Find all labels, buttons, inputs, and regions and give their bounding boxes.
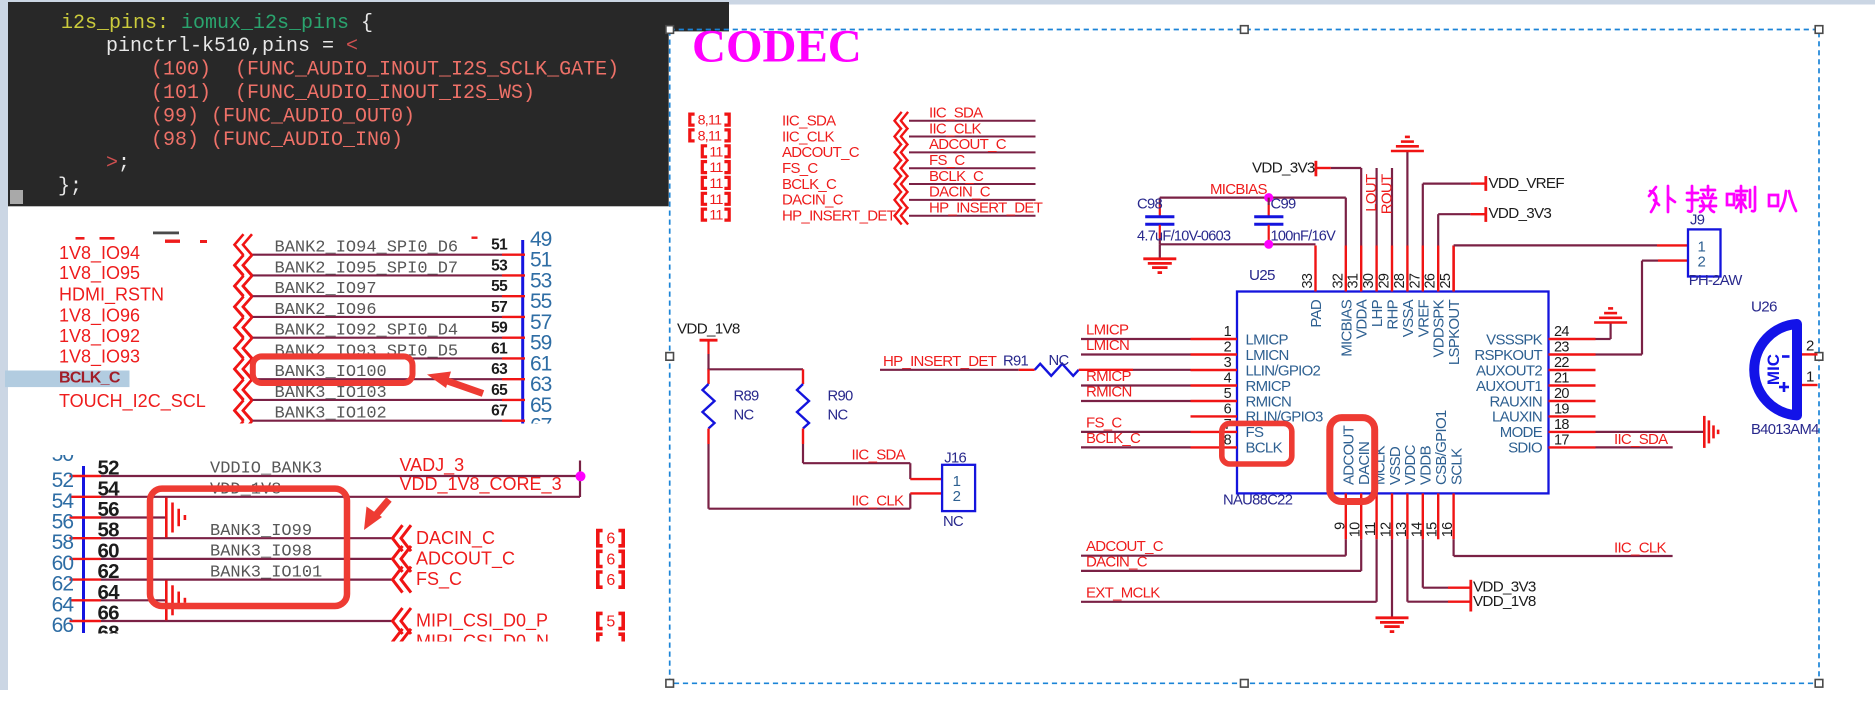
connector body edge (blue pin line): [521, 240, 524, 424]
svg-text:1V8_IO93: 1V8_IO93: [59, 347, 140, 368]
svg-text:29: 29: [1377, 273, 1393, 288]
svg-text:(99) (FUNC_AUDIO_OUT0): (99) (FUNC_AUDIO_OUT0): [151, 105, 415, 128]
highlight box around ADCOUT/DACIN pins: [1330, 418, 1375, 502]
svg-text:C99: C99: [1271, 197, 1297, 213]
svg-text:J16: J16: [944, 451, 966, 467]
svg-text:24: 24: [1554, 324, 1569, 340]
wire-entry chevron row 53: [235, 255, 253, 296]
wire pin 23 RSPKOUT to J9 pin 2: [1596, 261, 1689, 355]
wire pin 28 VSSA to ground: [1406, 151, 1408, 246]
ground (sideways) pin 56: [166, 498, 185, 538]
wire-entry chevron row 67: [235, 400, 253, 441]
net VADJ_3 junction wire: [579, 461, 581, 498]
pin 10: [1360, 493, 1362, 539]
wire-entry chevron row 51: [235, 234, 253, 275]
pin 31: [1360, 246, 1362, 292]
svg-text:FS_C: FS_C: [782, 160, 818, 177]
svg-text:MIPI_CSI_D0_P: MIPI_CSI_D0_P: [416, 611, 548, 632]
svg-text:ROUT: ROUT: [1379, 174, 1396, 214]
wire-entry chevron row 63: [235, 359, 253, 400]
svg-text:BANK3_IO98: BANK3_IO98: [210, 543, 312, 562]
sheet reference [6]: [598, 531, 623, 548]
wire IIC_CLK to J16: [709, 444, 943, 509]
svg-text:14: 14: [1409, 522, 1425, 537]
off-page chevron MIPI_CSI_D0_P: [393, 608, 412, 634]
svg-text:(100) (FUNC_AUDIO_INOUT_I2S_S: (100) (FUNC_AUDIO_INOUT_I2S_SCLK_GATE): [151, 59, 619, 82]
partial row MIPI_CSI_D0_N: [393, 629, 624, 655]
svg-text:58: 58: [98, 519, 120, 542]
svg-text:1V8_IO96: 1V8_IO96: [59, 305, 140, 326]
wire ADCOUT_C: [909, 151, 1036, 153]
svg-text:LMICN: LMICN: [1086, 337, 1129, 354]
svg-text:BANK2_IO95_SPI0_D7: BANK2_IO95_SPI0_D7: [275, 259, 459, 278]
junction dot VADJ_3: [576, 471, 586, 481]
selection handle: [1815, 353, 1823, 361]
svg-text:17: 17: [1554, 432, 1569, 448]
wire C98 bottom to ground: [1159, 244, 1161, 258]
svg-text:BANK3_IO100: BANK3_IO100: [275, 363, 387, 382]
svg-text:R89: R89: [734, 389, 760, 405]
svg-text:BCLK_C: BCLK_C: [59, 369, 121, 386]
wire cap bottoms to pin 33 PAD: [1160, 243, 1316, 245]
svg-text:R91: R91: [1003, 353, 1029, 369]
wire pin 60: [70, 558, 395, 560]
svg-text:62: 62: [52, 573, 74, 596]
junction dot MICBIAS at C99: [1264, 193, 1273, 202]
off-page chevron DACIN_C: [895, 191, 909, 209]
connector body edge (blue pin line) lower: [82, 466, 85, 633]
svg-text:53: 53: [530, 269, 552, 292]
wire pin 10 DACIN to DACIN_C: [1081, 539, 1361, 571]
wire pin 54: [70, 496, 581, 498]
svg-text:>: >: [106, 152, 118, 175]
svg-text:33: 33: [1300, 273, 1316, 288]
wire-entry chevron row 57: [235, 296, 253, 337]
svg-text:NAU88C22: NAU88C22: [1223, 493, 1293, 509]
wire pin 66: [70, 620, 395, 622]
svg-text:DACIN_C: DACIN_C: [1086, 553, 1148, 570]
svg-text:6: 6: [606, 531, 615, 548]
svg-text:IIC_SDA: IIC_SDA: [852, 446, 906, 463]
ground (below C98): [1143, 259, 1176, 273]
pin 2 of U26: [1802, 353, 1818, 355]
svg-text:RMICP: RMICP: [1086, 368, 1132, 385]
svg-text:10: 10: [1348, 522, 1364, 537]
off-page chevron ADCOUT_C: [393, 546, 412, 572]
svg-text:U25: U25: [1249, 267, 1275, 284]
svg-text:11: 11: [709, 208, 723, 224]
svg-text:28: 28: [1392, 273, 1408, 288]
svg-text:2: 2: [1224, 340, 1232, 356]
sheet reference [6]: [598, 572, 623, 589]
svg-text:32: 32: [1330, 273, 1346, 288]
svg-text:ADCOUT_C: ADCOUT_C: [929, 136, 1007, 153]
pin 2: [1191, 353, 1238, 355]
svg-text:PAD: PAD: [1308, 299, 1325, 327]
svg-text:58: 58: [52, 531, 74, 554]
svg-text:31: 31: [1346, 273, 1362, 288]
wire pin 9 ADCOUT to ADCOUT_C: [1081, 539, 1346, 555]
svg-text:BANK3_IO99: BANK3_IO99: [210, 522, 312, 541]
svg-text:VDD_1V8: VDD_1V8: [677, 321, 740, 338]
wire BANK pin 53: [252, 274, 525, 276]
annotation arrow to BANK3 group: [364, 500, 389, 531]
power symbol VDD_1V8: [677, 321, 740, 355]
svg-text:PH-2AW: PH-2AW: [1689, 273, 1743, 289]
svg-text:59: 59: [530, 332, 552, 355]
svg-text:VDD_1V8_CORE_3: VDD_1V8_CORE_3: [400, 474, 562, 495]
svg-text:62: 62: [98, 560, 120, 583]
svg-text:63: 63: [530, 373, 552, 396]
svg-text:<: <: [346, 35, 358, 58]
svg-text:61: 61: [491, 340, 508, 357]
sheet reference [11] row DACIN_C: [702, 192, 729, 208]
svg-text:LMICN: LMICN: [1246, 347, 1289, 364]
white crop patch below pin 68: [10, 634, 390, 644]
wire pin 27 VREF to VDD_VREF: [1423, 184, 1486, 246]
wire to pin 4: [1081, 384, 1191, 386]
svg-text:VDD_3V3: VDD_3V3: [1489, 205, 1552, 222]
svg-text:27: 27: [1407, 273, 1423, 288]
sheet reference [6]: [598, 551, 623, 568]
svg-text:21: 21: [1554, 371, 1569, 387]
cut-off label remnants top: [76, 232, 478, 244]
svg-text:60: 60: [98, 539, 120, 562]
ground (top, VSSA): [1391, 137, 1424, 151]
code editor dark panel: [8, 2, 729, 206]
pin 21: [1549, 384, 1596, 386]
pin 9: [1345, 493, 1347, 539]
svg-text:IIC_CLK: IIC_CLK: [782, 128, 834, 145]
wire-entry chevron row 59: [235, 317, 253, 358]
wire-entry chevron row 65: [235, 379, 253, 420]
off-page chevron DACIN_C: [393, 525, 412, 551]
off-page chevron BCLK_C: [895, 175, 909, 193]
svg-text:54: 54: [98, 477, 121, 500]
pin 17: [1549, 446, 1596, 448]
svg-text:4: 4: [1224, 371, 1232, 387]
pin 1 of U26: [1802, 384, 1818, 386]
pin 3: [1191, 369, 1238, 371]
svg-text:2: 2: [953, 488, 961, 505]
svg-text:HP_INSERT_DET: HP_INSERT_DET: [929, 200, 1043, 217]
pin 14: [1422, 493, 1424, 539]
svg-text:SDIO: SDIO: [1508, 440, 1542, 457]
svg-text:16: 16: [1440, 522, 1456, 537]
sheet reference [11] row BCLK_C: [702, 176, 729, 192]
selection handle: [1241, 680, 1249, 688]
pin 8: [1191, 446, 1238, 448]
wire pin 18 MODE to ground: [1596, 431, 1705, 433]
sheet reference [11] row ADCOUT_C: [702, 144, 729, 160]
svg-text:BCLK_C: BCLK_C: [782, 176, 837, 193]
svg-text:54: 54: [52, 490, 75, 513]
pin 13: [1406, 493, 1408, 539]
svg-text:55: 55: [491, 278, 508, 295]
off-page chevron IIC_CLK: [895, 128, 909, 146]
svg-text:AUXOUT1: AUXOUT1: [1476, 378, 1542, 395]
pin 4: [1191, 384, 1238, 386]
svg-text:IIC_SDA: IIC_SDA: [1614, 431, 1668, 448]
pin 12: [1391, 493, 1393, 539]
svg-text:22: 22: [1554, 355, 1569, 371]
resistor R89 (NC): [703, 369, 760, 444]
off-page chevron IIC_SDA: [895, 112, 909, 130]
svg-text:11: 11: [709, 176, 723, 192]
svg-text:51: 51: [491, 237, 508, 254]
svg-text:1: 1: [1224, 324, 1232, 340]
svg-text:15: 15: [1425, 522, 1441, 537]
svg-text:8: 8: [1224, 432, 1232, 448]
svg-text:iomux_i2s_pins: iomux_i2s_pins: [181, 12, 349, 35]
svg-text:11: 11: [709, 144, 723, 160]
pin 16: [1452, 493, 1454, 539]
wire pin 62: [70, 578, 395, 580]
pin 30: [1375, 246, 1377, 292]
svg-text:1: 1: [1806, 368, 1814, 385]
pin 32: [1345, 246, 1347, 292]
selection handle: [1815, 26, 1823, 34]
svg-text:64: 64: [52, 593, 75, 616]
off-page chevron HP_INSERT_DET: [895, 207, 909, 225]
svg-text:;: ;: [118, 152, 130, 175]
svg-text:BCLK_C: BCLK_C: [1086, 430, 1141, 447]
wire BANK pin 59: [252, 337, 525, 339]
wire LOUT (pin 30 LHP): [1375, 168, 1377, 246]
svg-text:FS: FS: [1246, 424, 1264, 441]
svg-text:30: 30: [1361, 273, 1377, 288]
wire IIC_SDA: [909, 120, 1036, 122]
power symbol VDD_3V3 (right): [1486, 205, 1552, 222]
ground (bottom, VSSD): [1376, 618, 1409, 632]
svg-text:C98: C98: [1137, 197, 1163, 213]
svg-text:MICBIAS: MICBIAS: [1210, 181, 1267, 198]
svg-text:HDMI_RSTN: HDMI_RSTN: [59, 285, 164, 306]
wire pin 26 VDDSPK to VDD_3V3: [1438, 214, 1486, 245]
svg-text:1V8_IO95: 1V8_IO95: [59, 263, 140, 284]
wire to pin 5: [1081, 400, 1191, 402]
annotation arrow to BANK3_IO100: [427, 372, 483, 394]
svg-text:NC: NC: [1049, 353, 1070, 369]
svg-text:RMICN: RMICN: [1086, 384, 1132, 401]
svg-text:ADCOUT_C: ADCOUT_C: [1086, 538, 1164, 555]
svg-text:IIC_SDA: IIC_SDA: [782, 113, 836, 130]
svg-text:IIC_CLK: IIC_CLK: [852, 492, 904, 509]
wire pin 14 VDDB to VDD_3V3: [1423, 539, 1471, 587]
pin 33: [1314, 246, 1316, 292]
svg-text:49: 49: [530, 228, 552, 251]
svg-text:BANK2_IO96: BANK2_IO96: [275, 301, 377, 320]
wire pin 64: [70, 599, 167, 601]
svg-text:B4013AM4: B4013AM4: [1751, 422, 1819, 438]
sheet reference [8,11] row IIC_CLK: [690, 129, 729, 145]
wire to pin 8: [1081, 446, 1191, 448]
svg-text:BANK2_IO94_SPI0_D6: BANK2_IO94_SPI0_D6: [275, 239, 459, 258]
svg-text:DACIN_C: DACIN_C: [929, 184, 991, 201]
svg-text:9: 9: [1332, 522, 1348, 530]
wire to pin 7: [1081, 431, 1191, 433]
svg-text:RMICP: RMICP: [1246, 378, 1292, 395]
svg-text:TOUCH_I2C_SCL: TOUCH_I2C_SCL: [59, 391, 206, 412]
pin 23: [1549, 353, 1596, 355]
wire HP_INSERT_DET: [909, 215, 1036, 217]
svg-text:12: 12: [1379, 522, 1395, 537]
pin 15: [1437, 493, 1439, 539]
selection handle: [666, 26, 674, 34]
pin 1: [1191, 338, 1238, 340]
pin 25: [1452, 246, 1454, 292]
wire VDD_1V8 to resistors: [707, 354, 803, 369]
svg-text:2: 2: [1806, 338, 1814, 355]
svg-text:52: 52: [98, 457, 120, 480]
ground (sideways, MODE): [1704, 416, 1718, 448]
wire R91 to pin 3: [1079, 369, 1191, 371]
selection handle: [1241, 26, 1249, 34]
svg-text:NC: NC: [734, 408, 755, 424]
wire VDD_3V3 to pin 31 VDDA: [1331, 168, 1361, 246]
svg-text:53: 53: [491, 257, 508, 274]
wire to pin 2: [1081, 353, 1191, 355]
wire BANK pin 61: [252, 357, 525, 359]
wire ROUT (pin 29 RHP): [1391, 168, 1393, 246]
pin 29: [1391, 246, 1393, 292]
svg-text:MODE: MODE: [1500, 424, 1543, 441]
svg-text:R90: R90: [828, 389, 854, 405]
wire pin 16 SCLK to IIC_CLK: [1454, 539, 1673, 556]
pin 19: [1549, 415, 1596, 417]
svg-text:LMICP: LMICP: [1246, 331, 1289, 348]
off-page chevron FS_C: [393, 567, 412, 593]
svg-text:61: 61: [530, 352, 552, 375]
svg-text:60: 60: [52, 552, 74, 575]
resistor R90 (NC): [797, 369, 853, 444]
window edge strip top: [0, 0, 1875, 5]
svg-text:6: 6: [606, 572, 615, 589]
sheet reference [11] row HP_INSERT_DET: [702, 208, 729, 224]
pin 28: [1406, 246, 1408, 292]
pin 6 stub: [1191, 415, 1238, 417]
svg-text:2: 2: [1698, 254, 1706, 271]
wire BANK pin 51: [252, 254, 525, 256]
power symbol VDD_3V3 (top): [1252, 160, 1331, 177]
wire-entry chevron row 55: [235, 276, 253, 317]
svg-text:HP_INSERT_DET: HP_INSERT_DET: [782, 208, 896, 225]
highlight box around BANK3_IO100: [253, 356, 413, 383]
selection handle: [666, 680, 674, 688]
svg-text:VDDIO_BANK3: VDDIO_BANK3: [210, 460, 322, 479]
title 'wai jie la ba' (external speaker): [1649, 186, 1796, 212]
svg-text:ADCOUT_C: ADCOUT_C: [782, 144, 860, 161]
svg-text:67: 67: [491, 403, 507, 420]
junction dot at C99 bottom: [1264, 240, 1273, 249]
svg-text:SCLK: SCLK: [1448, 448, 1465, 485]
wire BANK pin 57: [252, 316, 525, 318]
off-page chevron ADCOUT_C: [895, 144, 909, 162]
sheet reference [5]: [598, 613, 623, 630]
wire pin 25 LSPKOUT to J9 pin 1: [1454, 245, 1688, 291]
svg-text:65: 65: [530, 394, 552, 417]
svg-text:BANK3_IO101: BANK3_IO101: [210, 563, 322, 582]
svg-text:IIC_CLK: IIC_CLK: [1614, 539, 1666, 556]
svg-text:LLIN/GPIO2: LLIN/GPIO2: [1246, 362, 1321, 379]
wire BANK pin 55: [252, 295, 525, 297]
svg-text:56: 56: [98, 498, 120, 521]
scrollbar thumb: [10, 190, 23, 204]
wire-entry chevron row 61: [235, 338, 253, 379]
svg-text:IIC_CLK: IIC_CLK: [929, 120, 981, 137]
svg-text:IIC_SDA: IIC_SDA: [929, 105, 983, 122]
pin 22: [1549, 369, 1596, 371]
connector J16: [942, 451, 975, 531]
svg-text:57: 57: [491, 299, 507, 316]
power bar VDD_3V3/VDD_1V8 (bottom): [1469, 580, 1472, 612]
svg-text:11: 11: [709, 160, 723, 176]
wire pin 13 VDDC to VDD_1V8: [1407, 539, 1470, 601]
off-page chevron FS_C: [895, 159, 909, 177]
sheet reference [8,11] row IIC_SDA: [690, 113, 729, 129]
selection highlight for BCLK_C: [5, 371, 130, 388]
pin 11: [1375, 493, 1377, 539]
svg-text:23: 23: [1554, 340, 1569, 356]
wire BANK pin 67: [252, 420, 525, 422]
svg-text:1V8_IO92: 1V8_IO92: [59, 326, 140, 347]
power symbol VDD_VREF: [1486, 175, 1565, 192]
capacitor C99: [1254, 197, 1336, 245]
svg-text:DACIN_C: DACIN_C: [782, 192, 844, 209]
svg-text:(98) (FUNC_AUDIO_IN0): (98) (FUNC_AUDIO_IN0): [151, 129, 403, 152]
svg-text:5: 5: [1224, 386, 1232, 402]
microphone U26 symbol: [1754, 324, 1797, 415]
IC U25 NAU88C22 body: [1237, 292, 1549, 494]
selection handle: [666, 353, 674, 361]
wire DACIN_C: [909, 199, 1036, 201]
wire pin 11 MCLK to EXT_MCLK: [1081, 539, 1377, 602]
svg-text:J9: J9: [1690, 213, 1705, 229]
svg-text:i2s_pins:: i2s_pins:: [61, 12, 169, 35]
svg-text:63: 63: [491, 361, 508, 378]
highlight box around FS/BCLK pins: [1222, 423, 1292, 464]
svg-text:ADCOUT_C: ADCOUT_C: [416, 549, 515, 570]
svg-text:MIC: MIC: [1764, 354, 1783, 385]
pin 20: [1549, 400, 1596, 402]
capacitor C98: [1137, 197, 1231, 245]
wire pin 17 SDIO: [1596, 446, 1673, 448]
svg-text:NC: NC: [943, 514, 964, 530]
svg-text:3: 3: [1224, 355, 1232, 371]
svg-text:U26: U26: [1751, 299, 1777, 316]
svg-text:};: };: [58, 176, 82, 199]
svg-text:NC: NC: [828, 408, 849, 424]
wire IIC_CLK: [909, 136, 1036, 138]
wire IIC_SDA to J16: [803, 444, 942, 479]
window edge strip left: [0, 0, 8, 690]
ground (pin 24 VSSSPK): [1594, 308, 1627, 322]
sheet reference [11] row FS_C: [702, 160, 729, 176]
svg-text:BANK3_IO102: BANK3_IO102: [275, 405, 387, 424]
wire FS_C: [909, 167, 1036, 169]
svg-text:25: 25: [1438, 273, 1454, 288]
wire BANK pin 63: [252, 378, 525, 380]
pin 26: [1437, 246, 1439, 292]
svg-text:5: 5: [606, 613, 615, 630]
wire HP_INSERT_DET: [880, 369, 1035, 371]
svg-text:52: 52: [52, 469, 74, 492]
svg-text:100nF/16V: 100nF/16V: [1271, 229, 1337, 245]
wire BANK pin 65: [252, 399, 525, 401]
svg-text:VDD_VREF: VDD_VREF: [1489, 175, 1565, 192]
svg-text:LSPKOUT: LSPKOUT: [1446, 299, 1463, 365]
svg-text:8,11: 8,11: [698, 113, 723, 129]
